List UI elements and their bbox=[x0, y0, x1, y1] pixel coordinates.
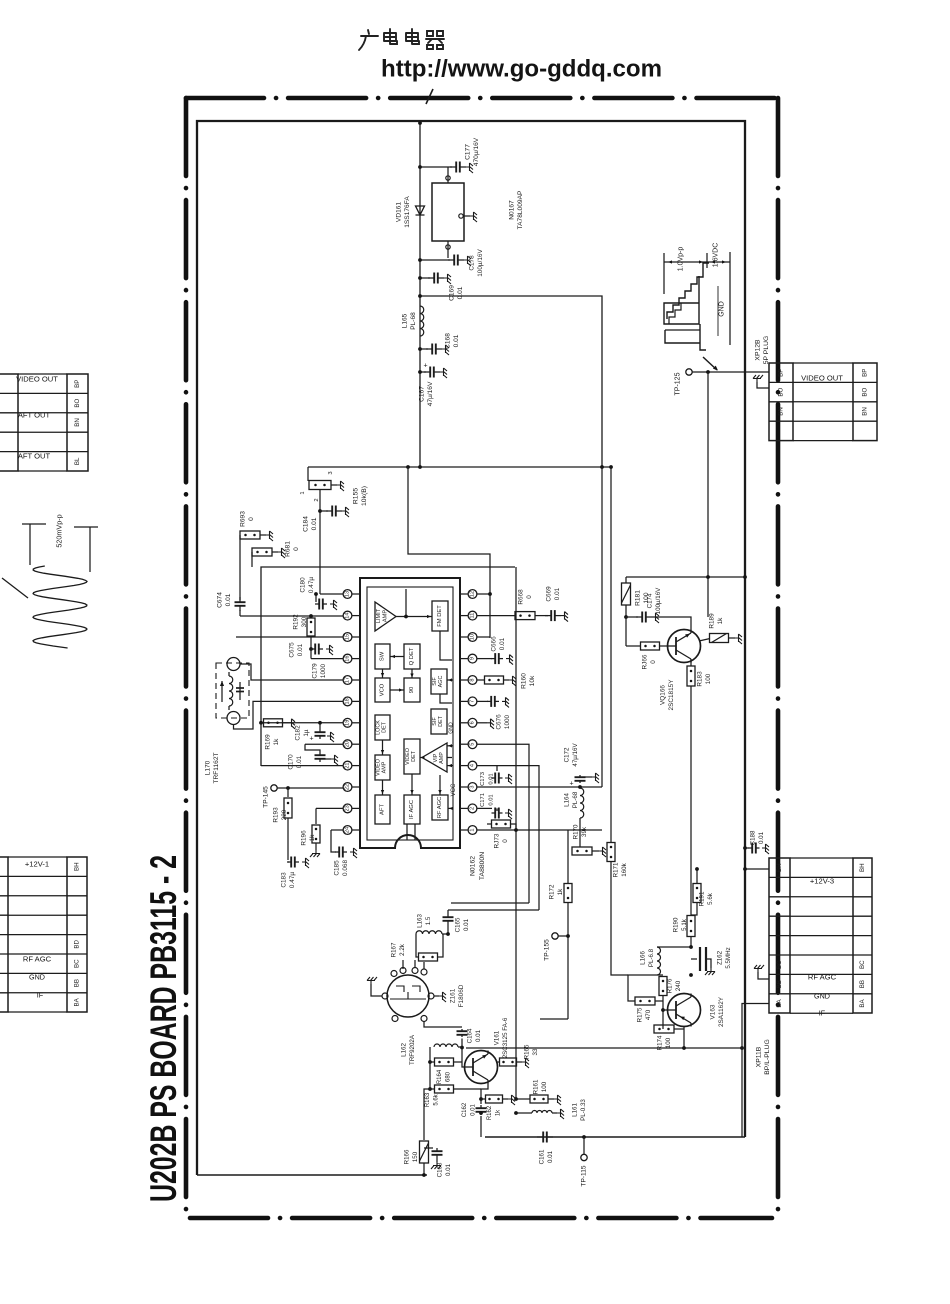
svg-text:AGC: AGC bbox=[438, 676, 444, 688]
regulator N0167 box bbox=[432, 183, 464, 241]
capacitor C162 bbox=[480, 1105, 482, 1108]
svg-text:C184: C184 bbox=[303, 516, 310, 532]
svg-text:C188: C188 bbox=[750, 830, 757, 845]
svg-text:TA78L009AP: TA78L009AP bbox=[517, 190, 524, 229]
dimension lines 520mVp-p bbox=[29, 524, 31, 565]
svg-text:39k: 39k bbox=[581, 826, 588, 837]
svg-text:R170: R170 bbox=[573, 824, 580, 839]
wire bus x602 bbox=[601, 467, 603, 787]
wire pin3 VCC bbox=[477, 786, 602, 788]
svg-text:16: 16 bbox=[345, 655, 351, 661]
wire pin10 bbox=[477, 636, 490, 638]
inductor L161 bbox=[516, 1112, 532, 1114]
wire pin5 bbox=[477, 744, 529, 903]
svg-text:RF AGC: RF AGC bbox=[808, 973, 837, 982]
svg-text:R171: R171 bbox=[613, 862, 620, 877]
svg-text:BB: BB bbox=[859, 980, 866, 988]
outer dashed border bottom bbox=[190, 1216, 772, 1221]
svg-text:VIDEO OUT: VIDEO OUT bbox=[16, 375, 58, 384]
svg-text:Z161: Z161 bbox=[450, 988, 457, 1003]
svg-text:BN: BN bbox=[74, 418, 81, 427]
svg-text:TRF9202A: TRF9202A bbox=[409, 1034, 416, 1065]
svg-text:GND: GND bbox=[29, 973, 45, 982]
block LIMIT AMP bbox=[375, 602, 396, 631]
resistor R183 bbox=[690, 660, 692, 667]
wire Z161 top stubs bbox=[402, 960, 404, 969]
svg-text:1k: 1k bbox=[309, 834, 316, 842]
wire pin6 bbox=[477, 722, 487, 724]
connector XS11 left column bbox=[0, 857, 8, 1012]
wire rungs XP11B bbox=[790, 857, 853, 859]
svg-text:0.01: 0.01 bbox=[296, 755, 303, 768]
svg-text:BP: BP bbox=[778, 369, 785, 377]
svg-text:3: 3 bbox=[328, 471, 334, 474]
arrow to TP-125 wire bbox=[703, 357, 717, 370]
svg-text:SIF: SIF bbox=[432, 677, 438, 686]
svg-text:R668: R668 bbox=[518, 589, 525, 605]
resonator Z162 bbox=[689, 945, 693, 949]
svg-text:6: 6 bbox=[470, 721, 476, 724]
capacitor C177 bbox=[450, 166, 456, 168]
inner board outline bottom-right segment bbox=[485, 1136, 745, 1138]
svg-text:0.01: 0.01 bbox=[758, 831, 765, 844]
wire pin13 bbox=[320, 593, 343, 595]
svg-text:100µ/16V: 100µ/16V bbox=[655, 587, 662, 614]
resistor R192 bbox=[307, 618, 315, 636]
svg-text:TP-145: TP-145 bbox=[263, 786, 270, 808]
svg-text:2: 2 bbox=[470, 807, 476, 810]
svg-text:47µ/16V: 47µ/16V bbox=[427, 381, 434, 406]
svg-text:100: 100 bbox=[665, 1037, 672, 1048]
svg-text:R196: R196 bbox=[301, 830, 308, 846]
connector XP12B right column bbox=[853, 363, 877, 441]
svg-text:http://www.go-gddq.com: http://www.go-gddq.com bbox=[381, 56, 662, 83]
wire pin15 bbox=[236, 636, 343, 638]
svg-text:L162: L162 bbox=[401, 1043, 408, 1057]
svg-text:R166: R166 bbox=[404, 1149, 411, 1164]
transistor V161 bbox=[465, 1051, 498, 1084]
wire pin20 bbox=[305, 743, 343, 745]
svg-text:C165: C165 bbox=[455, 917, 462, 932]
svg-text:0: 0 bbox=[248, 517, 255, 521]
svg-text:IF: IF bbox=[819, 1009, 826, 1018]
IC internal wires bbox=[396, 616, 432, 618]
wire V163 base bbox=[662, 1001, 664, 1029]
block VCO bbox=[375, 678, 390, 702]
svg-text:1: 1 bbox=[470, 828, 476, 831]
svg-text:10k: 10k bbox=[529, 675, 536, 686]
svg-text:5.6k: 5.6k bbox=[707, 892, 714, 905]
svg-text:BD: BD bbox=[74, 939, 81, 948]
svg-text:Q DET: Q DET bbox=[409, 647, 415, 665]
resistor R167 bbox=[416, 934, 419, 957]
wire y1019 bbox=[540, 1018, 568, 1020]
svg-text:1.0Vp-p: 1.0Vp-p bbox=[678, 247, 685, 272]
capacitor C168 bbox=[420, 348, 428, 350]
svg-text:+: + bbox=[569, 781, 573, 788]
svg-text:AMP: AMP bbox=[382, 761, 388, 773]
svg-text:1000: 1000 bbox=[504, 714, 511, 729]
wire V166 collector bbox=[652, 617, 691, 630]
capacitor C174 bbox=[624, 615, 628, 619]
inductor L165 bbox=[420, 306, 424, 336]
wire shield box bottom route bbox=[451, 902, 529, 904]
capacitor C164 bbox=[424, 1022, 462, 1028]
svg-text:21: 21 bbox=[345, 762, 351, 768]
slash tick on top border bbox=[426, 89, 433, 104]
block VIP AMP bbox=[422, 743, 447, 772]
svg-text:SW: SW bbox=[380, 651, 386, 661]
svg-text:15: 15 bbox=[345, 634, 351, 640]
svg-text:C666: C666 bbox=[491, 636, 498, 652]
svg-text:GND: GND bbox=[719, 301, 726, 317]
capacitor C172 bbox=[579, 775, 581, 777]
wire pin8 bbox=[477, 679, 484, 681]
svg-text:5P PLUG: 5P PLUG bbox=[763, 336, 770, 365]
sine waveform bbox=[33, 566, 87, 648]
resistor R196 bbox=[315, 808, 317, 824]
svg-text:BH: BH bbox=[776, 863, 783, 872]
svg-text:14: 14 bbox=[345, 612, 351, 618]
ground at XP12B BO bbox=[757, 382, 769, 388]
svg-text:L170: L170 bbox=[205, 760, 212, 775]
svg-text:IF: IF bbox=[37, 991, 44, 1000]
svg-text:13: 13 bbox=[345, 591, 351, 597]
svg-text:C173: C173 bbox=[480, 772, 486, 786]
svg-text:BB: BB bbox=[74, 979, 81, 987]
svg-text:33: 33 bbox=[532, 1048, 539, 1055]
wire emitter row y1048 bbox=[466, 1047, 742, 1049]
transistor V166 bbox=[668, 630, 701, 663]
svg-text:BC: BC bbox=[776, 960, 783, 969]
svg-text:V163: V163 bbox=[710, 1004, 717, 1019]
svg-text:BN: BN bbox=[778, 407, 785, 416]
resistor RJ73 bbox=[492, 820, 511, 828]
svg-text:AFT OUT: AFT OUT bbox=[18, 411, 51, 420]
svg-text:5.6k: 5.6k bbox=[434, 1093, 440, 1105]
svg-text:R163: R163 bbox=[425, 1092, 431, 1107]
svg-text:0.01: 0.01 bbox=[297, 643, 304, 656]
svg-text:VIDEO OUT: VIDEO OUT bbox=[801, 374, 843, 383]
svg-text:0.01: 0.01 bbox=[457, 286, 464, 299]
wire pin11 bbox=[477, 615, 515, 617]
block LOCK DET bbox=[375, 715, 390, 740]
potentiometer R155 bbox=[307, 467, 309, 481]
pointer line to waveform bbox=[2, 578, 28, 598]
svg-text:VCO: VCO bbox=[380, 683, 386, 696]
svg-text:0.01: 0.01 bbox=[453, 334, 460, 347]
resistor R174 bbox=[654, 1025, 674, 1033]
svg-text:VCC: VCC bbox=[451, 783, 457, 796]
wire pin14 bbox=[240, 615, 343, 617]
svg-text:8: 8 bbox=[470, 678, 476, 681]
inner board outline bottom-left segment bbox=[197, 1174, 427, 1176]
svg-text:100µ/16V: 100µ/16V bbox=[477, 249, 484, 277]
svg-text:R181: R181 bbox=[635, 590, 642, 606]
svg-text:VQ166: VQ166 bbox=[660, 685, 667, 705]
svg-text:2SC1815Y: 2SC1815Y bbox=[668, 679, 675, 711]
svg-text:L164: L164 bbox=[564, 793, 571, 807]
wire main supply bus vertical bbox=[419, 121, 421, 467]
block AFT bbox=[375, 795, 390, 824]
wire pin24 bbox=[331, 829, 343, 831]
svg-text:2: 2 bbox=[314, 498, 320, 501]
capacitor C188 bbox=[745, 847, 749, 849]
svg-text:XP12B: XP12B bbox=[755, 339, 762, 361]
wire emitter bus x691 bbox=[690, 686, 692, 915]
svg-text:U202B PS BOARD PB3115 - 2: U202B PS BOARD PB3115 - 2 bbox=[143, 855, 184, 1202]
svg-text:1.5: 1.5 bbox=[425, 916, 432, 925]
svg-text:VIP: VIP bbox=[433, 753, 439, 762]
svg-text:C174: C174 bbox=[647, 593, 654, 608]
svg-text:4: 4 bbox=[470, 764, 476, 767]
svg-text:R193: R193 bbox=[273, 807, 280, 823]
svg-text:0: 0 bbox=[502, 839, 509, 843]
svg-text:1000: 1000 bbox=[320, 663, 327, 678]
svg-text:TP-115: TP-115 bbox=[581, 1165, 588, 1186]
wire TP-125 branch down bbox=[707, 372, 709, 617]
svg-text:DET: DET bbox=[382, 721, 388, 732]
connector XS11 right column bbox=[67, 857, 87, 1012]
svg-text:TRF1162T: TRF1162T bbox=[213, 752, 220, 783]
svg-text:520mVp-p: 520mVp-p bbox=[55, 514, 64, 547]
capacitor C183 bbox=[287, 861, 291, 863]
svg-text:1k: 1k bbox=[496, 1109, 502, 1116]
svg-text:C185: C185 bbox=[334, 860, 341, 876]
svg-text:PL-68: PL-68 bbox=[410, 312, 417, 330]
svg-text:N0167: N0167 bbox=[509, 200, 516, 220]
svg-text:R160: R160 bbox=[521, 673, 528, 689]
svg-text:22: 22 bbox=[345, 784, 351, 790]
block 90 bbox=[404, 678, 420, 702]
svg-text:20: 20 bbox=[345, 741, 351, 747]
svg-text:160k: 160k bbox=[621, 862, 628, 876]
wire pin9 bbox=[477, 658, 492, 660]
wire to C177 bbox=[420, 166, 452, 168]
wire V163 emitter bbox=[683, 1027, 685, 1049]
svg-text:19: 19 bbox=[345, 720, 351, 726]
svg-text:150: 150 bbox=[412, 1151, 419, 1162]
svg-text:BP/L-PLUG: BP/L-PLUG bbox=[764, 1039, 771, 1075]
diode VD161 bbox=[416, 206, 425, 215]
wire R155 top bus bbox=[308, 466, 611, 468]
svg-text:1k: 1k bbox=[273, 738, 280, 746]
svg-text:R192: R192 bbox=[293, 614, 300, 630]
wire rungs VIDEO OUT connector bbox=[793, 362, 853, 364]
svg-text:100: 100 bbox=[541, 1081, 548, 1092]
capacitor C171 bbox=[496, 808, 498, 811]
svg-text:0: 0 bbox=[650, 660, 657, 664]
test point TP-125 bbox=[686, 369, 692, 375]
svg-text:FM DET: FM DET bbox=[437, 605, 443, 627]
wire pin23 bbox=[316, 807, 343, 809]
svg-text:R183: R183 bbox=[697, 671, 704, 687]
svg-text:2SC3125 FA-6: 2SC3125 FA-6 bbox=[502, 1017, 509, 1058]
svg-text:0.01: 0.01 bbox=[489, 794, 495, 805]
svg-text:C182: C182 bbox=[295, 725, 302, 741]
capacitor C666 bbox=[491, 658, 495, 660]
svg-text:BP: BP bbox=[862, 369, 869, 377]
svg-text:R164: R164 bbox=[437, 1069, 443, 1084]
resistor R190 bbox=[687, 916, 695, 937]
svg-text:AMP: AMP bbox=[439, 752, 445, 764]
svg-text:TP-155: TP-155 bbox=[544, 939, 551, 961]
capacitor C180 bbox=[315, 594, 317, 602]
svg-text:R190: R190 bbox=[673, 917, 680, 932]
svg-text:VIDEO: VIDEO bbox=[376, 759, 382, 776]
svg-text:R693: R693 bbox=[240, 511, 247, 527]
svg-text:BH: BH bbox=[859, 863, 866, 872]
test point TP-145 bbox=[271, 785, 277, 791]
resistor R169 bbox=[264, 719, 283, 727]
svg-text:TA8800N: TA8800N bbox=[479, 852, 486, 880]
svg-text:1k: 1k bbox=[717, 617, 724, 625]
svg-text:C162: C162 bbox=[462, 1102, 468, 1117]
svg-text:C167: C167 bbox=[419, 386, 426, 402]
svg-text:R169: R169 bbox=[265, 734, 272, 750]
capacitor C184 bbox=[318, 509, 322, 513]
inductor L163 bbox=[416, 931, 442, 934]
svg-text:C674: C674 bbox=[217, 592, 224, 608]
svg-text:AMP: AMP bbox=[383, 610, 389, 622]
test point TP-115 bbox=[583, 1137, 585, 1154]
svg-text:R162: R162 bbox=[487, 1105, 493, 1120]
svg-text:470: 470 bbox=[645, 1009, 652, 1020]
resistor R166 bbox=[424, 1089, 430, 1140]
svg-text:VIDEO: VIDEO bbox=[405, 748, 411, 765]
svg-text:GND: GND bbox=[449, 722, 455, 734]
svg-text:BP: BP bbox=[74, 380, 81, 388]
wire IF output vertical bbox=[742, 1004, 769, 1138]
capacitor C185 bbox=[331, 830, 336, 852]
test point TP-155 bbox=[552, 933, 558, 939]
svg-text:BO: BO bbox=[778, 387, 785, 396]
wire pin16 bbox=[311, 658, 343, 660]
connector XP12B left column bbox=[769, 363, 793, 441]
wire loop pins 10-12 bbox=[408, 467, 490, 638]
header logo text (Chinese) bbox=[359, 29, 444, 50]
svg-text:R155: R155 bbox=[353, 488, 360, 504]
block SIF DET bbox=[431, 709, 447, 734]
svg-text:23: 23 bbox=[345, 805, 351, 811]
svg-text:0.01: 0.01 bbox=[311, 517, 318, 530]
capacitor C675 bbox=[309, 647, 313, 651]
wire rungs left bottom connector bbox=[8, 856, 67, 858]
svg-text:BC: BC bbox=[859, 960, 866, 969]
resistor R181 bbox=[625, 572, 627, 577]
svg-text:L161: L161 bbox=[572, 1103, 579, 1117]
ground at XP11B BB bbox=[758, 972, 769, 979]
svg-text:RF AGC: RF AGC bbox=[437, 797, 443, 819]
svg-text:0.01: 0.01 bbox=[463, 918, 470, 931]
svg-text:AFT OUT: AFT OUT bbox=[18, 452, 51, 461]
svg-text:0: 0 bbox=[293, 547, 300, 551]
svg-text:47µ/16V: 47µ/16V bbox=[572, 743, 579, 767]
resistor R193 bbox=[287, 788, 289, 797]
svg-text:BH: BH bbox=[74, 862, 81, 871]
svg-text:17: 17 bbox=[345, 677, 351, 683]
svg-text:0.068: 0.068 bbox=[342, 860, 349, 876]
resistor R163 bbox=[428, 1087, 432, 1091]
resistor R191 bbox=[696, 869, 698, 884]
IC pins 13-24 bbox=[343, 590, 352, 599]
svg-text:IF AGC: IF AGC bbox=[409, 800, 415, 819]
inductor L162 bbox=[429, 1047, 431, 1089]
block VIDEO DET bbox=[404, 739, 420, 774]
svg-text:Z162: Z162 bbox=[717, 950, 724, 965]
svg-text:BN: BN bbox=[862, 407, 869, 416]
svg-text:PL-68: PL-68 bbox=[572, 791, 579, 808]
shield box around IC section bbox=[261, 567, 515, 766]
svg-text:R189: R189 bbox=[709, 613, 716, 629]
svg-text:DET: DET bbox=[438, 715, 444, 726]
svg-text:0.01: 0.01 bbox=[554, 587, 561, 600]
resistor R164 bbox=[428, 1060, 432, 1064]
svg-text:PL-0.33: PL-0.33 bbox=[580, 1099, 587, 1121]
svg-text:100: 100 bbox=[705, 673, 712, 684]
svg-text:R176: R176 bbox=[667, 978, 674, 993]
svg-text:470µ/16V: 470µ/16V bbox=[473, 137, 480, 166]
resistor RJ66 bbox=[625, 617, 627, 646]
svg-text:L163: L163 bbox=[417, 914, 424, 928]
connector XP11B left column bbox=[769, 858, 790, 1013]
svg-text:C161: C161 bbox=[539, 1149, 546, 1164]
wire V161 emitter bbox=[481, 1084, 488, 1105]
svg-text:1k: 1k bbox=[557, 888, 564, 895]
wire pin1 bbox=[477, 829, 602, 831]
capacitor C182 bbox=[319, 723, 321, 729]
svg-text:C178: C178 bbox=[469, 255, 476, 271]
svg-text:10k(B): 10k(B) bbox=[361, 486, 368, 506]
svg-text:TP-125: TP-125 bbox=[675, 372, 682, 395]
wire pin17 bbox=[240, 664, 343, 680]
svg-text:7: 7 bbox=[470, 700, 476, 703]
wire pin12 bbox=[477, 593, 490, 595]
IC N0162 outline bbox=[360, 578, 460, 848]
svg-text:10: 10 bbox=[470, 634, 476, 640]
svg-text:0.01: 0.01 bbox=[471, 1104, 477, 1116]
svg-text:SIF: SIF bbox=[432, 717, 438, 726]
svg-text:C164: C164 bbox=[467, 1028, 474, 1043]
resistor R172 bbox=[564, 884, 572, 903]
SAW filter Z161 bbox=[387, 975, 429, 1017]
svg-text:R681: R681 bbox=[285, 541, 292, 557]
inductor L166 bbox=[657, 946, 691, 948]
capacitor C167 bbox=[420, 371, 426, 373]
svg-text:+12V-3: +12V-3 bbox=[810, 877, 834, 886]
svg-text:R191: R191 bbox=[699, 891, 706, 906]
svg-text:24: 24 bbox=[345, 827, 351, 833]
svg-text:11: 11 bbox=[470, 613, 476, 619]
svg-text:RJ73: RJ73 bbox=[494, 833, 501, 848]
svg-text:+12V-1: +12V-1 bbox=[25, 860, 49, 869]
capacitor C674 bbox=[239, 597, 241, 602]
IC pins 12-1 bbox=[468, 590, 477, 599]
svg-text:0.01: 0.01 bbox=[499, 637, 506, 650]
block VIDEO AMP bbox=[375, 755, 390, 780]
svg-text:0: 0 bbox=[526, 595, 533, 599]
wire pin4 bbox=[477, 766, 539, 910]
wire top frame to right bbox=[420, 296, 602, 467]
svg-text:+: + bbox=[423, 363, 427, 370]
svg-text:LIMIT: LIMIT bbox=[376, 608, 382, 623]
block FM DET bbox=[432, 601, 448, 631]
svg-text:C669: C669 bbox=[546, 586, 553, 602]
svg-text:AFT: AFT bbox=[380, 804, 386, 815]
svg-text:0.01: 0.01 bbox=[225, 593, 232, 606]
svg-text:18: 18 bbox=[345, 698, 351, 704]
wire pin21 bbox=[261, 765, 343, 767]
